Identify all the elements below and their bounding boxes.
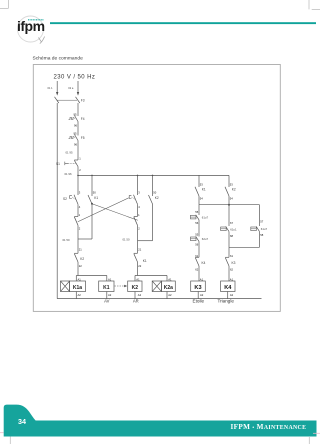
svg-text:F5: F5 [81, 136, 85, 140]
wire [228, 232, 230, 248]
svg-text:02 a: 02 a [68, 86, 74, 90]
svg-text:Schéma de commande: Schéma de commande [33, 55, 84, 61]
wire [137, 225, 139, 240]
wire [91, 204, 93, 239]
svg-text:54: 54 [200, 196, 203, 200]
svg-text:67: 67 [230, 221, 233, 225]
svg-text:61u7: 61u7 [202, 216, 209, 220]
pushbutton S3 NO [129, 190, 140, 209]
footer banner [4, 405, 317, 437]
wire merge AV [78, 238, 92, 240]
svg-text:A2: A2 [108, 293, 112, 297]
wire [228, 266, 230, 281]
svg-text:01 95: 01 95 [66, 151, 73, 155]
svg-text:01 50: 01 50 [123, 237, 130, 241]
timer contact bypass [251, 220, 268, 237]
schematic frame [33, 65, 280, 312]
interlock arrow K1-K2 [115, 285, 128, 288]
wire main line top [77, 103, 79, 116]
svg-text:01 1: 01 1 [48, 86, 54, 90]
coil K1 [99, 276, 114, 299]
svg-text:50: 50 [153, 191, 156, 195]
contact S2 NC in branch3 [134, 213, 141, 231]
wire [198, 266, 200, 281]
coil K2 [128, 276, 142, 299]
timer contact K2a NO [221, 221, 237, 238]
svg-text:56: 56 [195, 243, 198, 247]
contact K3 NC interlock [225, 254, 235, 271]
svg-text:2: 2 [79, 168, 81, 172]
svg-text:1: 1 [138, 213, 140, 217]
svg-text:54: 54 [230, 196, 233, 200]
svg-text:A2: A2 [230, 293, 234, 297]
wire [137, 204, 139, 216]
svg-text:3: 3 [79, 190, 81, 194]
svg-text:AV: AV [104, 299, 109, 304]
wire [228, 205, 230, 226]
svg-text:68: 68 [230, 234, 233, 238]
wire [77, 122, 79, 136]
svg-text:IFPM • MAINTENANCE: IFPM • MAINTENANCE [231, 423, 307, 431]
wire branch3 top [137, 175, 139, 195]
wire [152, 204, 154, 241]
contact K1 NC interlock [134, 248, 147, 269]
svg-text:95: 95 [74, 132, 77, 136]
switch F3 two-pole [55, 97, 85, 103]
svg-text:34: 34 [18, 417, 26, 426]
contact K2 seal NO [149, 191, 159, 205]
svg-text:K2: K2 [132, 285, 139, 291]
wire bypass branch [259, 205, 261, 226]
svg-text:Etoile: Etoile [193, 299, 205, 304]
svg-text:ifpm: ifpm [17, 18, 45, 34]
svg-text:A2: A2 [78, 293, 82, 297]
contact K2 NO [225, 175, 236, 204]
svg-text:01 50: 01 50 [63, 238, 70, 242]
wire control bus [78, 174, 229, 176]
svg-text:1: 1 [79, 213, 81, 217]
contact K1 NO [195, 183, 206, 201]
svg-text:58: 58 [260, 233, 263, 237]
pushbutton S1 NC [56, 156, 81, 172]
logo tail [39, 37, 45, 44]
svg-text:A2: A2 [168, 293, 172, 297]
svg-text:96: 96 [74, 123, 77, 127]
svg-text:3: 3 [138, 190, 140, 194]
coil K3 [191, 277, 206, 298]
svg-text:61u7: 61u7 [261, 227, 268, 231]
wire split AR [135, 275, 167, 277]
svg-text:A2: A2 [200, 293, 204, 297]
svg-text:K2a: K2a [164, 285, 173, 291]
overload contact F4 [69, 113, 85, 128]
wire branch2 [91, 175, 93, 196]
svg-text:62: 62 [230, 267, 233, 271]
wire [198, 241, 200, 257]
svg-text:22: 22 [138, 264, 141, 268]
wire branch1 lower [77, 239, 79, 253]
supply N arrow [68, 81, 79, 96]
logo microtext formation [28, 19, 44, 21]
wire merge AR [138, 240, 153, 242]
svg-text:1: 1 [79, 156, 81, 160]
crop mark top-right [309, 0, 320, 9]
svg-text:K3: K3 [232, 261, 236, 265]
svg-text:55: 55 [195, 233, 198, 237]
svg-text:K1: K1 [103, 285, 110, 291]
svg-text:62: 62 [195, 267, 198, 271]
svg-text:K4: K4 [202, 261, 206, 265]
node dot [91, 203, 93, 205]
wire [77, 141, 79, 161]
svg-text:50: 50 [93, 191, 96, 195]
wire [259, 232, 261, 248]
svg-text:57: 57 [260, 220, 263, 224]
wire [77, 225, 79, 239]
svg-text:S2: S2 [63, 197, 67, 201]
wire [77, 204, 79, 216]
svg-text:53: 53 [230, 183, 233, 187]
svg-text:K1a: K1a [73, 285, 82, 291]
svg-text:61u1: 61u1 [230, 227, 237, 231]
svg-text:AR: AR [133, 299, 139, 304]
contact K4 NC interlock [195, 254, 205, 271]
svg-text:21: 21 [79, 248, 82, 252]
svg-text:K1: K1 [94, 196, 98, 200]
wire [198, 196, 200, 205]
wire star branch K1 drop [198, 175, 200, 187]
wire [137, 262, 139, 276]
mechanical link diagonal S2 [78, 198, 129, 222]
wire bottom rail [57, 298, 261, 300]
wire [228, 247, 230, 257]
svg-text:F4: F4 [81, 117, 85, 121]
node dots on bus [77, 175, 153, 177]
svg-text:62u7: 62u7 [202, 237, 209, 241]
svg-text:56: 56 [195, 221, 198, 225]
supply L1 arrow [48, 81, 59, 96]
timer contact 2 [191, 233, 209, 247]
svg-text:230 V / 50 Hz: 230 V / 50 Hz [54, 74, 96, 80]
logo circle [18, 16, 44, 42]
contact K2 NC interlock [74, 248, 84, 269]
wire branch3 lower [137, 241, 139, 254]
svg-text:22: 22 [79, 264, 82, 268]
svg-text:2: 2 [79, 226, 81, 230]
contact K1 seal NO [88, 191, 98, 205]
wire [77, 262, 79, 276]
coil K1a with timer [61, 276, 86, 299]
svg-text:K2: K2 [80, 257, 84, 261]
pushbutton S2 NO [63, 190, 81, 209]
svg-text:S1: S1 [56, 162, 60, 166]
svg-text:61: 61 [230, 254, 233, 258]
node dot [228, 204, 230, 206]
svg-text:A2: A2 [138, 293, 142, 297]
wire branch1 top [77, 175, 79, 195]
svg-text:4: 4 [138, 205, 140, 209]
svg-text:21: 21 [138, 248, 141, 252]
wire split AV [76, 275, 107, 277]
coil K4 [221, 277, 235, 298]
svg-text:4: 4 [79, 205, 81, 209]
svg-text:01 96: 01 96 [65, 172, 72, 176]
wire [77, 167, 79, 176]
crop mark bottom-right [309, 433, 320, 444]
wire [198, 220, 200, 237]
svg-text:95: 95 [74, 113, 77, 117]
svg-text:2: 2 [138, 226, 140, 230]
wire left rail [56, 103, 58, 299]
svg-text:K4: K4 [224, 285, 232, 291]
coil K2a with timer [152, 276, 175, 299]
overload contact F5 [69, 132, 85, 147]
svg-text:K2: K2 [232, 187, 236, 191]
crop mark bottom-left [0, 433, 10, 444]
header teal rule [50, 22, 316, 24]
crop mark top-left [0, 0, 8, 8]
svg-text:K1: K1 [202, 187, 206, 191]
wire branch4 [152, 175, 154, 196]
svg-text:K3: K3 [194, 285, 201, 291]
svg-text:55: 55 [195, 210, 198, 214]
contact S3 NC in branch1 [74, 213, 81, 231]
wire [198, 205, 200, 215]
wire star join [199, 204, 260, 206]
svg-text:K2: K2 [155, 196, 159, 200]
svg-text:F3: F3 [81, 98, 85, 102]
svg-text:Triangle: Triangle [217, 299, 234, 304]
timer contact 1 [191, 210, 209, 225]
svg-text:53: 53 [200, 183, 203, 187]
svg-text:K1: K1 [143, 259, 147, 263]
wire bypass rejoin [229, 246, 260, 248]
mechanical link diagonal S3 [92, 204, 138, 221]
svg-text:96: 96 [74, 142, 77, 146]
